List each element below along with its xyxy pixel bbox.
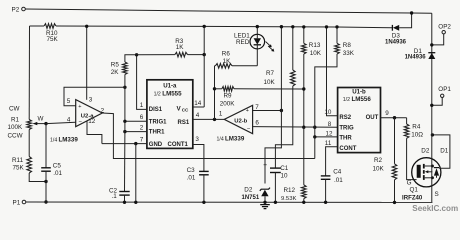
- svg-text:LM555: LM555: [162, 90, 182, 97]
- svg-text:5: 5: [67, 98, 71, 105]
- resistor R4 10ohm: [404, 118, 423, 139]
- wire R11 bottom jog to C5 node: [29, 173, 46, 182]
- svg-text:W: W: [38, 116, 44, 123]
- resistor R6 1K: [215, 51, 258, 69]
- terminal P2: [12, 7, 26, 14]
- label CW: [9, 105, 20, 112]
- transistor Q1 IRFZ40: [412, 158, 441, 187]
- label S: [435, 191, 439, 198]
- svg-text:11: 11: [325, 140, 332, 147]
- terminal OP1: [430, 86, 451, 107]
- pin label TRIG1: [149, 119, 167, 125]
- svg-text:R1: R1: [11, 117, 20, 124]
- resistor R12 9.53K: [281, 127, 306, 204]
- wire rail2 left segment: [30, 25, 45, 27]
- svg-text:1: 1: [219, 110, 223, 117]
- svg-text:D2: D2: [421, 147, 430, 154]
- svg-text:C1: C1: [280, 165, 289, 172]
- wire R5 bottom column: [124, 75, 126, 122]
- svg-text:1/4: 1/4: [50, 137, 57, 143]
- svg-text:7: 7: [255, 104, 259, 111]
- svg-text:75K: 75K: [47, 36, 59, 43]
- svg-text:1: 1: [140, 102, 144, 109]
- resistor R9 200K: [215, 87, 304, 108]
- ground symbol: [260, 205, 270, 209]
- svg-text:10K: 10K: [264, 79, 276, 86]
- wire left vertical rail2 to R1: [28, 26, 30, 120]
- svg-text:OP1: OP1: [438, 86, 451, 93]
- svg-text:Q1: Q1: [410, 187, 419, 194]
- svg-text:C5: C5: [53, 162, 62, 169]
- zener diode D2 1N751: [242, 187, 271, 205]
- svg-text:THR1: THR1: [149, 130, 165, 136]
- svg-text:TRIG1: TRIG1: [149, 119, 167, 125]
- wire W node down to C5: [45, 124, 47, 168]
- resistor R10 75K: [44, 24, 59, 43]
- svg-text:100K: 100K: [8, 124, 24, 131]
- svg-text:2K: 2K: [111, 69, 120, 76]
- svg-text:.01: .01: [53, 170, 62, 177]
- svg-text:1N4936: 1N4936: [405, 54, 427, 60]
- svg-text:R7: R7: [266, 70, 275, 77]
- wire U1-b pin 9 OUT: [381, 110, 407, 118]
- node R9 junction dot: [213, 87, 216, 90]
- svg-text:CONT1: CONT1: [168, 142, 189, 148]
- resistor R13 10K: [302, 25, 322, 127]
- svg-text:10Ω: 10Ω: [411, 132, 423, 139]
- resistor R8 33K: [315, 25, 355, 137]
- wiper arrow W of R1: [33, 116, 46, 126]
- IC U1-b 1/2 LM556 box: [338, 88, 381, 153]
- wire right vertical rail: [431, 13, 433, 202]
- svg-text:U1-b: U1-b: [352, 88, 366, 95]
- potentiometer R1 100K: [8, 117, 32, 131]
- label 1/4 LM339 (U2-a): [50, 136, 78, 143]
- wire U1-a pin 6 TRIG1: [123, 114, 147, 123]
- pin label CONT: [339, 146, 356, 152]
- svg-text:1N751: 1N751: [242, 195, 260, 201]
- wire THR node down to C2: [124, 132, 126, 192]
- svg-text:LM339: LM339: [225, 135, 245, 142]
- wire U1-a pin 1 DIS1 riser: [137, 55, 147, 110]
- wire U2-a pin 2 output to 556 THR node: [101, 107, 315, 158]
- svg-text:1K: 1K: [176, 44, 185, 51]
- svg-text:RED: RED: [236, 39, 250, 46]
- LED LED1 RED: [234, 25, 274, 66]
- svg-text:.01: .01: [334, 177, 343, 184]
- svg-text:9.53K: 9.53K: [281, 196, 296, 202]
- svg-text:2: 2: [140, 124, 144, 131]
- pin label RS1: [178, 120, 190, 126]
- wire R7 tail to C1: [275, 86, 292, 168]
- svg-text:8: 8: [328, 121, 332, 128]
- svg-text:R8: R8: [343, 42, 352, 49]
- wire bottom rail: [26, 201, 433, 203]
- svg-text:−: −: [78, 119, 82, 125]
- svg-text:RS1: RS1: [178, 120, 190, 126]
- svg-text:D2: D2: [244, 187, 253, 194]
- wire R4 to gate: [407, 138, 417, 179]
- IC U1-a 1/2 LM555 box: [147, 80, 193, 149]
- resistor R2 10K: [373, 118, 397, 204]
- wire U2-a pin 5 (+ input): [64, 87, 125, 105]
- node R3-Vcc riser junction dot: [203, 25, 206, 57]
- label IRFZ40: [402, 194, 423, 201]
- pin label VCC: [177, 105, 190, 112]
- wire U2-b pin 6 to TRIG(8): [253, 120, 338, 129]
- svg-text:OP2: OP2: [438, 24, 451, 31]
- pin label DIS1: [149, 107, 163, 113]
- wire R6-R9 node column: [214, 66, 216, 120]
- svg-text:P1: P1: [13, 200, 21, 207]
- svg-text:DIS1: DIS1: [149, 107, 163, 113]
- node R2 junction dot: [393, 116, 396, 119]
- capacitor C3 .01: [187, 167, 209, 181]
- svg-text:+: +: [78, 104, 81, 110]
- op-amp U2-b (1/4 LM339): [224, 105, 252, 133]
- capacitor C1 10uF: [263, 162, 289, 179]
- svg-text:1N4936: 1N4936: [385, 40, 407, 46]
- svg-text:D3: D3: [392, 32, 401, 39]
- wire body diode loop: [431, 133, 450, 168]
- capacitor C4 .01: [321, 169, 343, 184]
- node pin5-R5 junction dot: [123, 86, 126, 89]
- svg-text:GND: GND: [149, 142, 163, 148]
- svg-text:6: 6: [140, 114, 144, 121]
- svg-text:33K: 33K: [343, 50, 355, 57]
- svg-text:CCW: CCW: [8, 133, 23, 140]
- svg-text:R13: R13: [309, 42, 321, 49]
- svg-text:10: 10: [324, 109, 332, 116]
- resistor R7 10K: [264, 25, 296, 86]
- wire U1-a pin 7 GND: [102, 136, 147, 143]
- wire U1-a pin 3 CONT1: [193, 136, 204, 172]
- wire C5 to bottom rail: [44, 171, 47, 204]
- wire U1-a pin4 RS1 to U2-b output pin 1: [193, 110, 225, 119]
- svg-text:3: 3: [89, 96, 93, 103]
- svg-text:R11: R11: [12, 157, 24, 164]
- svg-text:CC: CC: [182, 108, 189, 113]
- resistor R11 75K: [12, 157, 32, 174]
- svg-text:4: 4: [196, 112, 200, 119]
- wire rail2 main segment (R10 to D3): [56, 26, 392, 28]
- svg-text:CONT: CONT: [339, 146, 356, 152]
- wire C3 to bottom rail: [202, 175, 205, 204]
- wire U2-a pin 3 (V+) to rail2: [85, 25, 93, 104]
- wire R1 bottom to R11 top: [28, 130, 30, 157]
- svg-text:12: 12: [88, 118, 96, 125]
- svg-text:1/2: 1/2: [154, 91, 161, 97]
- svg-text:1K: 1K: [223, 58, 232, 65]
- svg-text:+: +: [246, 108, 249, 114]
- svg-text:R4: R4: [412, 124, 421, 131]
- wire C2 to bottom rail: [123, 195, 126, 204]
- svg-text:CW: CW: [9, 105, 20, 112]
- wire U2-b pin 7 (+ in): [253, 104, 282, 111]
- svg-text:C3: C3: [187, 167, 196, 174]
- node U2-b pin7 junction dot: [280, 109, 283, 112]
- wire U2-a pin 12 (gnd): [87, 118, 102, 143]
- pin label GND (U1-a): [149, 142, 163, 148]
- wire THR(12) jog: [313, 131, 338, 159]
- wire top rail (P2 to D1 branch): [25, 9, 432, 13]
- node W junction dot: [44, 122, 47, 125]
- wire U1-a pin 2 THR1: [123, 121, 147, 133]
- svg-text:12: 12: [326, 131, 334, 138]
- svg-text:S: S: [435, 191, 439, 198]
- label CCW: [8, 133, 23, 140]
- svg-text:75K: 75K: [13, 164, 25, 171]
- svg-text:6: 6: [255, 120, 259, 127]
- pin label TRIG: [339, 126, 354, 132]
- watermark SeekIC.com: [412, 204, 458, 213]
- pin label RS2: [339, 115, 351, 121]
- svg-text:10K: 10K: [310, 50, 322, 57]
- svg-text:LM556: LM556: [352, 96, 372, 103]
- node RS1 junction dot: [213, 118, 216, 121]
- svg-text:14: 14: [194, 100, 202, 107]
- terminal P1: [13, 200, 26, 207]
- label D1 (body diode): [440, 147, 449, 154]
- wire C1 to bottom rail: [274, 173, 277, 205]
- pin label THR: [339, 136, 352, 142]
- svg-text:THR: THR: [339, 136, 352, 142]
- wire W to U2-a pin 4 (- input): [46, 116, 76, 123]
- svg-text:R6: R6: [222, 51, 231, 58]
- pin label THR1: [149, 130, 165, 136]
- svg-text:7: 7: [140, 136, 144, 143]
- svg-text:U1-a: U1-a: [163, 83, 177, 90]
- svg-text:R2: R2: [374, 157, 383, 164]
- svg-text:1/2: 1/2: [343, 97, 350, 103]
- svg-text:+: +: [263, 162, 267, 169]
- svg-text:R12: R12: [284, 187, 296, 194]
- pin label OUT: [366, 115, 379, 121]
- svg-text:2: 2: [101, 107, 105, 114]
- node GND1 junction dot: [134, 142, 137, 145]
- node DIS1-R3-R5 junction dot: [135, 53, 138, 56]
- svg-text:D1: D1: [440, 147, 449, 154]
- label D2 (drain): [421, 147, 430, 154]
- svg-text:IRFZ40: IRFZ40: [402, 194, 423, 201]
- svg-text:C4: C4: [333, 169, 342, 176]
- capacitor C2 .1: [109, 187, 130, 200]
- svg-text:R5: R5: [111, 62, 120, 69]
- svg-text:1/4: 1/4: [217, 136, 224, 142]
- svg-text:10K: 10K: [373, 166, 385, 173]
- svg-text:RS2: RS2: [339, 115, 351, 121]
- wire CONT(11) to C4: [325, 140, 338, 176]
- svg-text:4: 4: [67, 116, 71, 123]
- terminal OP2: [430, 24, 451, 47]
- svg-text:−: −: [247, 126, 251, 132]
- wire GND1 drop to bottom rail: [134, 144, 137, 204]
- svg-text:P2: P2: [12, 7, 20, 14]
- wire reference column rail2 to D2/C1: [265, 25, 283, 184]
- wire U1-a pin 14 Vcc: [193, 100, 204, 107]
- resistor R3 1K: [137, 38, 205, 57]
- svg-text:.1: .1: [112, 193, 118, 200]
- svg-text:3: 3: [195, 136, 199, 143]
- svg-text:200K: 200K: [220, 101, 236, 108]
- svg-text:G: G: [407, 179, 412, 186]
- svg-text:9: 9: [385, 110, 389, 117]
- wire RS2(10) riser to rail2: [324, 25, 337, 116]
- diode D3 1N4936: [385, 11, 413, 45]
- op-amp U2-a (1/4 LM339): [76, 100, 103, 127]
- svg-text:LM339: LM339: [59, 136, 79, 143]
- wire Vcc riser rail2 to pin 14: [203, 26, 205, 107]
- wire C4 to bottom rail: [324, 179, 327, 204]
- svg-text:TRIG: TRIG: [339, 126, 354, 132]
- svg-text:.01: .01: [187, 174, 196, 181]
- svg-text:OUT: OUT: [366, 115, 379, 121]
- capacitor C5 .01: [41, 162, 62, 177]
- label Q1: [410, 187, 419, 194]
- svg-text:R9: R9: [224, 92, 233, 99]
- svg-text:U2-b: U2-b: [234, 119, 247, 125]
- pin label CONT1: [168, 142, 189, 148]
- resistor R5 2K: [111, 55, 137, 76]
- svg-text:SeekIC.com: SeekIC.com: [412, 204, 458, 213]
- svg-text:10: 10: [281, 172, 289, 179]
- diode D1 1N4936: [405, 48, 436, 61]
- node C5 bottom junction dot: [44, 180, 47, 183]
- label G: [407, 179, 412, 186]
- label 1/4 LM339 (U2-b): [217, 135, 245, 142]
